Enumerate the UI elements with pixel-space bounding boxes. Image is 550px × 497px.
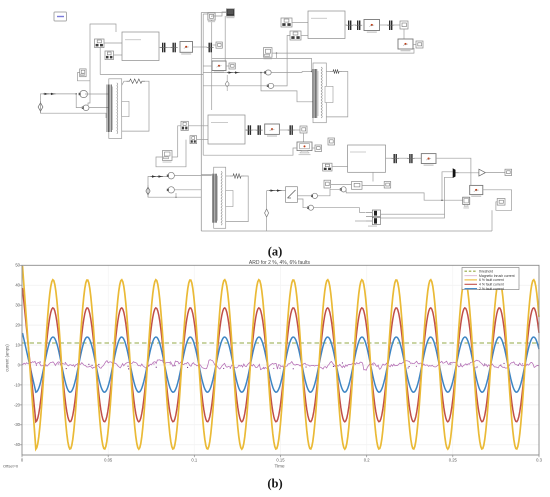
current measurement arrows B — [227, 71, 240, 73]
wire T3 loop right — [226, 176, 249, 222]
wire T3 loop — [226, 175, 230, 177]
winding block T2 — [325, 86, 333, 102]
svg-text:0.25: 0.25 — [449, 458, 458, 463]
svg-text:-10: -10 — [14, 382, 21, 387]
wire C1 out — [174, 175, 211, 177]
svg-text:(a): (a) — [268, 245, 283, 259]
measure block B2 — [267, 83, 274, 88]
wire pc1 — [188, 125, 208, 127]
wire tags — [331, 184, 352, 186]
wire A2 out — [89, 107, 109, 109]
wire C2 down — [175, 193, 177, 197]
wire d1 to d2 — [318, 189, 342, 196]
current measure diamond B — [225, 75, 229, 91]
svg-text:6 % fault current: 6 % fault current — [479, 278, 504, 282]
mosfet switch block — [366, 210, 381, 227]
wire T2 in — [302, 71, 313, 73]
svg-text:20: 20 — [15, 323, 20, 328]
wire T1 loop right — [122, 81, 149, 131]
breaker bars C2 — [256, 125, 263, 135]
wire d3 down — [314, 208, 366, 213]
current measurement arrows C — [151, 175, 164, 177]
measurement block C — [265, 124, 280, 137]
wire vertical bus 1 — [200, 13, 202, 232]
wire sc2 — [312, 147, 315, 149]
threshold dashed line — [22, 342, 539, 344]
goto tag C — [163, 151, 173, 163]
wire vertical bus 2 — [202, 14, 204, 155]
display right — [505, 169, 512, 175]
magnetic inrush current trace — [22, 360, 539, 371]
wire pb2 — [301, 35, 308, 37]
measurement block E — [470, 185, 483, 197]
wire b2 out — [245, 129, 247, 131]
wire pa1 to subsystem — [104, 42, 122, 44]
wire bars B — [353, 24, 356, 26]
phase block B B-b — [290, 31, 301, 40]
subsystem source A — [122, 32, 159, 61]
phase block B A-a — [281, 18, 292, 27]
svg-text:(b): (b) — [267, 477, 282, 491]
bottom bus wire — [201, 230, 492, 232]
phase block B-b — [105, 51, 114, 60]
wire junction to mux — [442, 172, 453, 200]
wire tags 2 — [362, 184, 384, 186]
subsystem relay C — [348, 145, 386, 172]
svg-text:threshold: threshold — [479, 269, 493, 273]
wire tagC right — [172, 156, 178, 158]
svg-text:2 % fault current: 2 % fault current — [479, 287, 504, 291]
measure block C1 — [167, 172, 175, 179]
wire B2 out — [274, 36, 290, 86]
from tag C1 — [324, 180, 331, 188]
svg-text:0.1: 0.1 — [191, 458, 197, 463]
scope 1 — [208, 13, 215, 22]
wire scope feed — [203, 13, 208, 14]
wire rd7 out loop — [483, 190, 512, 211]
wire phase A return drop — [99, 48, 101, 75]
winding block T1 — [122, 101, 129, 116]
measure block D2 — [340, 187, 346, 192]
wire bars D — [398, 157, 408, 159]
wire T1 loop — [122, 81, 127, 85]
wire phase B horizontal — [203, 72, 265, 74]
wire source top — [41, 94, 77, 102]
svg-text:40: 40 — [15, 283, 20, 288]
wire bus to B meas — [203, 65, 212, 67]
scope display C2 — [297, 142, 312, 155]
breaker bars B1 — [346, 21, 353, 31]
transformer T3 — [213, 167, 226, 228]
terminator B3 — [416, 41, 423, 48]
from tag C3 — [384, 182, 391, 189]
current arrows D — [269, 189, 282, 191]
measure block C2 — [167, 187, 175, 193]
wire C2 out — [174, 189, 201, 191]
wire tag down — [372, 172, 374, 181]
breaker bars A2 — [171, 43, 178, 53]
wire pd1 — [332, 166, 348, 168]
selector block A — [216, 42, 222, 48]
resistor R1 — [127, 79, 145, 83]
winding block T3 — [226, 191, 233, 207]
svg-text:10: 10 — [15, 343, 20, 348]
goto tag A — [80, 69, 86, 77]
node srcC — [175, 197, 176, 198]
transformer T2 — [313, 63, 327, 123]
wire B meas — [226, 65, 229, 67]
wire tagC up — [178, 126, 181, 157]
svg-text:Time: Time — [274, 464, 284, 469]
goto C — [328, 138, 335, 145]
node T2 — [311, 71, 312, 72]
source 3 — [265, 191, 269, 231]
AC source 2 — [146, 185, 150, 196]
wire bars A — [167, 47, 172, 49]
breaker bars C1 — [246, 125, 253, 135]
wire mux out — [459, 172, 479, 174]
measure block D1 — [311, 193, 318, 198]
phase block A-a — [95, 39, 105, 48]
node junction E — [441, 199, 443, 201]
svg-text:ARD for 2 %, 4%, 6% faults: ARD for 2 %, 4%, 6% faults — [249, 260, 311, 266]
wire b3 out — [345, 24, 347, 26]
resistor R2 — [330, 69, 342, 73]
wire breaker to d1 — [297, 195, 312, 197]
svg-text:-30: -30 — [14, 422, 21, 427]
breaker bars A1 — [160, 43, 167, 53]
measurement block B top — [364, 20, 380, 33]
terminator C — [300, 126, 307, 133]
x tick labels — [21, 458, 543, 463]
breaker bars B3 — [387, 21, 394, 31]
node junction B — [260, 72, 262, 74]
wire junction link — [276, 53, 278, 58]
wire top connector — [201, 12, 226, 14]
src — [38, 101, 43, 113]
scope 2 display — [226, 9, 234, 18]
wire srcC top — [148, 177, 168, 187]
wire right down — [491, 210, 493, 231]
measure block A2 — [82, 105, 89, 111]
from tag C2 — [352, 182, 363, 190]
gain block — [479, 169, 486, 176]
scope display D — [463, 197, 470, 208]
wire down to rd3 — [403, 29, 405, 39]
wire breaker left — [267, 190, 286, 192]
wire pa down — [88, 24, 116, 105]
wire rdC — [279, 129, 289, 131]
phase block C A-a — [181, 121, 188, 130]
wire return 2 — [212, 58, 312, 71]
wire vertical bus 4 — [224, 16, 226, 61]
wire bars D2 — [414, 157, 421, 159]
svg-text:current (amps): current (amps) — [5, 344, 10, 372]
wire mosfet loop — [381, 214, 445, 218]
wire gain out — [485, 172, 505, 174]
svg-text:0.3: 0.3 — [536, 458, 542, 463]
wire bars C — [252, 129, 256, 131]
measure block B1 — [264, 70, 271, 75]
wire rd6 down — [436, 158, 471, 185]
breaker bars D1 — [392, 154, 399, 163]
wire pc2 — [197, 139, 208, 141]
4% fault current curve (red) — [23, 288, 540, 422]
wire long return — [272, 48, 414, 53]
terminator B top — [400, 21, 408, 29]
phase block D — [323, 163, 332, 171]
powergui block — [54, 12, 67, 21]
wire bus to scope C2 — [203, 148, 297, 155]
measure block D3 — [307, 205, 313, 210]
6% fault current curve (yellow) — [23, 266, 540, 449]
wire vertical bus 3 — [211, 16, 213, 110]
wire mosfet left — [355, 220, 366, 222]
from tag E — [497, 199, 505, 206]
wire A1 to transformer — [85, 93, 109, 95]
wire rd3 out — [413, 44, 416, 46]
wire T3 in — [201, 174, 213, 176]
subsystem source C — [208, 115, 245, 144]
wire to A2 — [76, 94, 83, 108]
circuit breaker — [286, 187, 298, 203]
wire source bottom — [41, 112, 107, 118]
breaker bars B2 — [355, 21, 362, 31]
wire loop to mux — [445, 177, 453, 214]
phase block C B-b — [190, 136, 197, 144]
subsystem source B — [308, 11, 345, 39]
measurement block A — [180, 42, 193, 55]
wire srcC bottom — [148, 196, 201, 197]
y tick labels — [14, 263, 21, 448]
svg-text:0.2: 0.2 — [364, 458, 370, 463]
measurement block B2 top — [398, 39, 413, 51]
wire pb1 — [292, 22, 308, 24]
wire termC down — [303, 133, 305, 142]
node junction A — [75, 93, 77, 95]
current measurement arrows A — [43, 93, 56, 95]
legend box — [462, 268, 519, 291]
axes frame — [22, 265, 539, 455]
wire to termC — [293, 129, 300, 131]
wire B down — [261, 73, 313, 102]
wire phase A return — [100, 74, 203, 76]
wire tagC loop — [156, 140, 186, 167]
wire d3 — [297, 199, 308, 208]
wire subsystem out — [159, 47, 162, 49]
inrush dark speckles — [36, 362, 523, 370]
transformer T1 — [107, 79, 122, 139]
breaker bars D2 — [407, 154, 414, 163]
svg-text:0: 0 — [21, 458, 24, 463]
breaker bars A3 — [207, 43, 214, 53]
wire T2 loop — [326, 71, 330, 73]
wire d2 right — [346, 189, 463, 200]
plot background — [22, 265, 539, 455]
terminator B — [229, 63, 235, 69]
wire pa2 to subsystem — [114, 54, 123, 56]
breaker bars C3 — [288, 125, 295, 135]
wire T2 loop right — [326, 72, 348, 117]
node return junction — [276, 52, 277, 53]
svg-text:-20: -20 — [14, 402, 21, 407]
wire B2 feed — [203, 85, 268, 87]
resistor R3 — [230, 174, 244, 178]
svg-text:0.15: 0.15 — [276, 458, 285, 463]
svg-text:0.05: 0.05 — [104, 458, 113, 463]
measure block A1 — [79, 91, 88, 98]
wire rdB — [380, 24, 390, 26]
wire tagA loop — [77, 73, 90, 81]
svg-text:Offset=0: Offset=0 — [3, 464, 19, 469]
mux — [453, 168, 459, 178]
wire to bus A — [193, 46, 208, 48]
wire to term B — [393, 24, 400, 26]
wire relay out — [386, 157, 393, 159]
goto tag — [264, 48, 273, 60]
measurement block B — [212, 61, 226, 73]
svg-text:-40: -40 — [14, 442, 21, 447]
wire B1 out — [271, 71, 302, 74]
wire scope2 — [212, 12, 227, 16]
wire mux to selector — [213, 44, 217, 46]
terminator C2 — [315, 145, 322, 152]
measurement block D — [421, 154, 436, 166]
axis ticks — [20, 265, 539, 457]
svg-text:30: 30 — [15, 303, 20, 308]
gridlines — [22, 265, 539, 455]
2% fault current curve (blue) — [23, 333, 540, 392]
svg-text:50: 50 — [15, 263, 20, 268]
